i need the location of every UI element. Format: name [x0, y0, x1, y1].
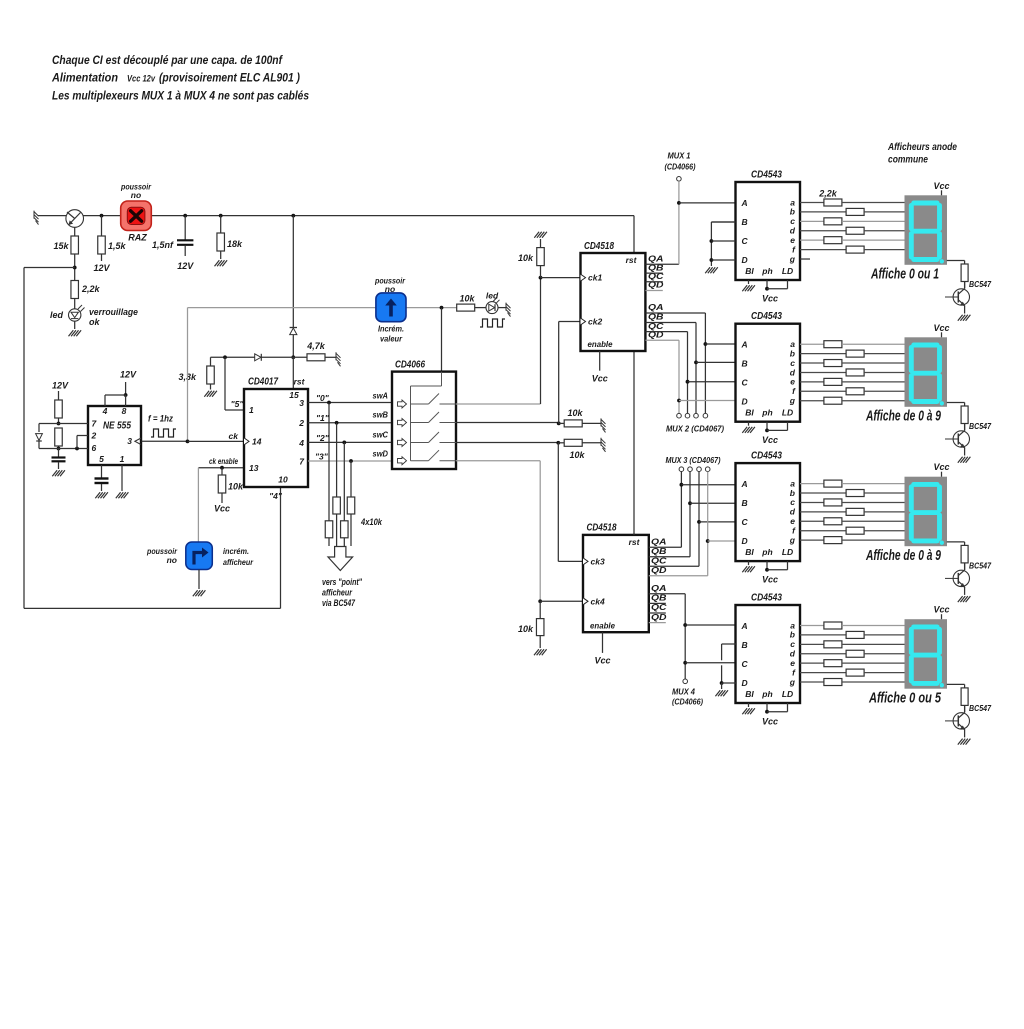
svg-text:Affiche de 0 à 9: Affiche de 0 à 9: [865, 548, 941, 564]
svg-text:"3": "3": [315, 452, 329, 462]
svg-text:C: C: [742, 517, 749, 527]
svg-text:ck: ck: [229, 431, 240, 441]
svg-text:MUX 4: MUX 4: [672, 687, 695, 697]
svg-text:Vcc: Vcc: [592, 374, 608, 384]
svg-text:ph: ph: [761, 408, 772, 418]
svg-text:3: 3: [299, 398, 304, 408]
svg-text:QA: QA: [651, 538, 667, 547]
svg-text:QB: QB: [651, 547, 667, 556]
svg-text:B: B: [742, 640, 748, 650]
svg-text:CD4543: CD4543: [751, 450, 782, 462]
svg-text:verrouillage: verrouillage: [89, 307, 138, 317]
svg-text:Vcc: Vcc: [762, 294, 778, 304]
svg-text:valeur: valeur: [380, 334, 403, 344]
svg-text:incrém.: incrém.: [223, 546, 249, 556]
svg-text:12V: 12V: [177, 261, 194, 271]
svg-text:BI: BI: [745, 408, 754, 418]
svg-text:CD4017: CD4017: [248, 376, 279, 388]
svg-text:Afficheurs anode: Afficheurs anode: [887, 142, 957, 153]
svg-text:4x10k: 4x10k: [360, 517, 383, 527]
svg-text:Vcc: Vcc: [762, 575, 778, 585]
svg-text:g: g: [789, 254, 796, 264]
svg-text:MUX 1: MUX 1: [668, 151, 691, 161]
svg-text:Alimentation: Alimentation: [51, 73, 118, 85]
svg-text:rst: rst: [294, 377, 306, 387]
svg-text:"5": "5": [231, 399, 245, 409]
svg-text:10k: 10k: [568, 408, 584, 418]
svg-text:QA: QA: [651, 584, 667, 593]
svg-text:4,7k: 4,7k: [306, 341, 326, 351]
svg-text:BI: BI: [745, 689, 754, 699]
svg-text:10k: 10k: [570, 450, 586, 460]
svg-text:rst: rst: [629, 537, 641, 547]
svg-text:led: led: [486, 291, 499, 301]
svg-text:Vcc: Vcc: [933, 462, 949, 472]
svg-text:Vcc: Vcc: [933, 323, 949, 333]
svg-text:"4": "4": [269, 491, 283, 501]
svg-text:ck1: ck1: [588, 273, 602, 283]
svg-text:(CD4066): (CD4066): [665, 162, 696, 172]
svg-text:swC: swC: [373, 430, 389, 440]
svg-text:10k: 10k: [460, 294, 476, 304]
svg-text:afficheur: afficheur: [223, 557, 254, 567]
svg-text:D: D: [742, 397, 748, 407]
svg-text:BC547: BC547: [969, 279, 992, 289]
svg-text:Affiche de 0 à 9: Affiche de 0 à 9: [865, 409, 941, 425]
svg-text:B: B: [742, 359, 748, 369]
svg-text:15: 15: [289, 390, 299, 400]
svg-text:via BC547: via BC547: [322, 598, 356, 608]
svg-text:Incrém.: Incrém.: [378, 324, 404, 334]
svg-text:1: 1: [120, 454, 125, 464]
svg-text:C: C: [742, 378, 749, 388]
svg-text:D: D: [742, 536, 748, 546]
svg-text:Vcc: Vcc: [762, 717, 778, 727]
svg-text:g: g: [789, 677, 796, 687]
svg-text:5: 5: [99, 454, 104, 464]
svg-text:A: A: [741, 198, 748, 208]
svg-text:Vcc: Vcc: [762, 435, 778, 445]
svg-text:2: 2: [91, 431, 97, 441]
svg-text:Affiche 0 ou 5: Affiche 0 ou 5: [868, 691, 941, 707]
svg-text:2,2k: 2,2k: [81, 284, 101, 294]
svg-text:14: 14: [252, 437, 262, 447]
svg-text:ck2: ck2: [588, 317, 602, 327]
svg-text:MUX 2 (CD4067): MUX 2 (CD4067): [666, 424, 724, 434]
svg-text:MUX 3 (CD4067): MUX 3 (CD4067): [666, 455, 721, 465]
svg-text:NE 555: NE 555: [103, 421, 131, 432]
svg-text:CD4518: CD4518: [587, 522, 617, 534]
svg-text:1,5k: 1,5k: [108, 241, 127, 251]
svg-text:QD: QD: [651, 566, 667, 575]
svg-text:led: led: [50, 310, 64, 320]
svg-text:"1": "1": [316, 413, 330, 423]
svg-text:LD: LD: [782, 266, 793, 276]
svg-text:LD: LD: [782, 408, 793, 418]
svg-text:Vcc: Vcc: [933, 181, 949, 191]
svg-text:D: D: [742, 255, 748, 265]
svg-text:Vcc 12v: Vcc 12v: [127, 74, 156, 84]
svg-text:Vcc: Vcc: [594, 656, 610, 666]
svg-text:no: no: [385, 284, 395, 294]
svg-text:1: 1: [249, 405, 254, 415]
svg-text:enable: enable: [588, 339, 613, 349]
svg-text:2: 2: [298, 418, 304, 428]
svg-text:18k: 18k: [227, 239, 243, 249]
svg-text:vers "point": vers "point": [322, 577, 363, 587]
svg-text:D: D: [742, 678, 748, 688]
svg-text:CD4543: CD4543: [751, 592, 782, 604]
svg-text:ph: ph: [761, 689, 772, 699]
svg-text:4: 4: [298, 438, 304, 448]
svg-text:B: B: [742, 498, 748, 508]
svg-text:BI: BI: [745, 547, 754, 557]
svg-text:A: A: [741, 340, 748, 350]
svg-text:1,5nf: 1,5nf: [152, 240, 174, 250]
svg-text:QA: QA: [648, 303, 664, 312]
svg-text:BC547: BC547: [969, 560, 992, 570]
svg-text:QC: QC: [651, 603, 667, 612]
svg-text:ck enable: ck enable: [209, 456, 238, 466]
svg-text:g: g: [789, 396, 796, 406]
svg-text:12V: 12V: [52, 381, 69, 391]
svg-text:13: 13: [249, 463, 259, 473]
svg-text:QC: QC: [651, 557, 667, 566]
svg-text:QD: QD: [651, 613, 667, 622]
svg-text:10k: 10k: [518, 253, 534, 263]
svg-text:Vcc: Vcc: [214, 504, 230, 514]
svg-text:QA: QA: [648, 255, 664, 264]
svg-text:2,2k: 2,2k: [818, 189, 838, 199]
svg-text:QB: QB: [648, 313, 664, 322]
svg-text:f = 1hz: f = 1hz: [148, 414, 173, 424]
svg-text:BI: BI: [745, 266, 754, 276]
svg-text:no: no: [167, 555, 177, 565]
svg-text:10: 10: [278, 475, 288, 485]
svg-text:C: C: [742, 659, 749, 669]
svg-text:B: B: [742, 217, 748, 227]
svg-text:CD4518: CD4518: [584, 240, 614, 252]
svg-text:(provisoirement ELC AL901 ): (provisoirement ELC AL901 ): [159, 73, 300, 85]
svg-text:ph: ph: [761, 266, 772, 276]
svg-text:C: C: [742, 236, 749, 246]
svg-text:LD: LD: [782, 547, 793, 557]
svg-text:A: A: [741, 479, 748, 489]
svg-text:Vcc: Vcc: [933, 605, 949, 615]
svg-text:6: 6: [92, 443, 97, 453]
svg-text:QB: QB: [651, 594, 667, 603]
svg-text:commune: commune: [888, 155, 928, 166]
svg-text:4: 4: [102, 406, 108, 416]
svg-text:10k: 10k: [518, 624, 534, 634]
svg-text:3: 3: [127, 436, 132, 446]
svg-text:LD: LD: [782, 689, 793, 699]
svg-text:CD4066: CD4066: [395, 359, 425, 371]
svg-text:enable: enable: [590, 620, 615, 630]
svg-text:12V: 12V: [120, 370, 137, 380]
svg-text:CD4543: CD4543: [751, 310, 782, 322]
svg-text:ph: ph: [761, 547, 772, 557]
svg-text:ck4: ck4: [591, 596, 605, 606]
svg-text:8: 8: [122, 406, 127, 416]
svg-text:RAZ: RAZ: [128, 233, 147, 243]
svg-text:ok: ok: [89, 317, 100, 327]
svg-text:Les multiplexeurs MUX 1 à MUX: Les multiplexeurs MUX 1 à MUX 4 ne sont …: [52, 91, 309, 103]
svg-text:swB: swB: [373, 410, 389, 420]
svg-text:"2": "2": [316, 433, 330, 443]
svg-text:Affiche 0 ou 1: Affiche 0 ou 1: [870, 267, 939, 283]
svg-text:g: g: [789, 535, 796, 545]
svg-text:(CD4066): (CD4066): [672, 697, 703, 707]
svg-text:12V: 12V: [93, 263, 110, 273]
svg-text:no: no: [131, 190, 141, 200]
svg-text:A: A: [741, 621, 748, 631]
svg-text:BC547: BC547: [969, 703, 992, 713]
svg-text:afficheur: afficheur: [322, 588, 352, 598]
svg-text:swA: swA: [373, 391, 389, 401]
svg-text:ck3: ck3: [591, 556, 605, 566]
svg-text:Chaque CI est découplé par une: Chaque CI est découplé par une capa. de …: [52, 55, 283, 67]
svg-text:BC547: BC547: [969, 421, 992, 431]
svg-text:rst: rst: [626, 255, 638, 265]
svg-text:CD4543: CD4543: [751, 169, 782, 181]
svg-text:10k: 10k: [228, 482, 244, 492]
svg-text:15k: 15k: [53, 241, 69, 251]
svg-text:swD: swD: [373, 449, 389, 459]
